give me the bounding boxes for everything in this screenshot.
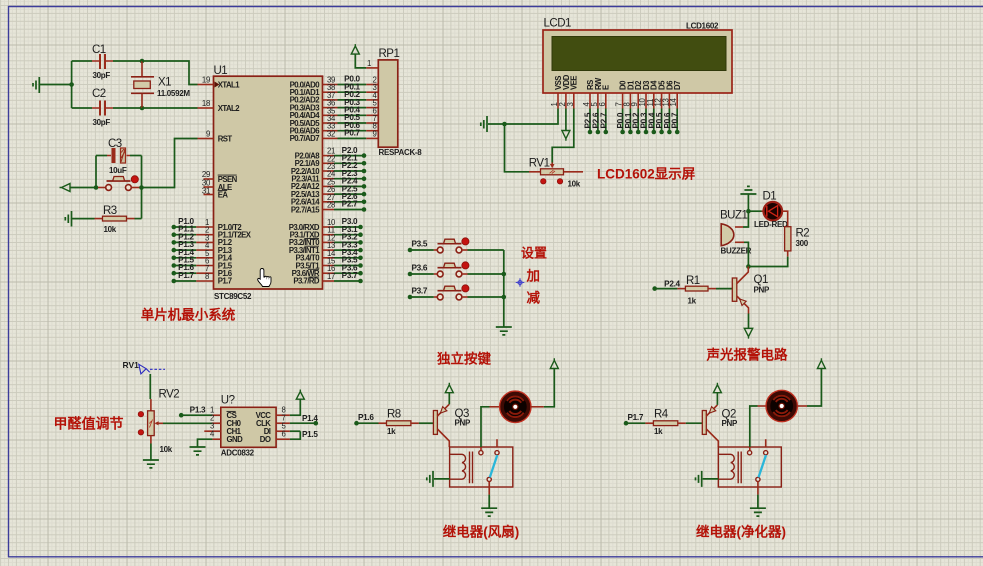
LCD pin 5 RW xyxy=(590,93,601,134)
svg-text:17: 17 xyxy=(327,272,335,281)
ground G6 (RV2) xyxy=(143,460,159,468)
svg-text:P1.6: P1.6 xyxy=(358,413,374,422)
LCD pin 1 VSS xyxy=(505,93,560,124)
svg-text:U1: U1 xyxy=(214,65,228,77)
wire junction to D1 xyxy=(748,210,763,212)
pin 27 P2.6 xyxy=(323,192,367,204)
svg-text:10uF: 10uF xyxy=(109,166,127,175)
node L (P1.6 terminal) xyxy=(354,413,374,425)
node E (reset right junction) xyxy=(139,185,144,190)
ground G4 (buttons) xyxy=(496,327,512,335)
pin 24 P2.3 xyxy=(323,169,367,181)
node I (D1/BUZ1 junction) xyxy=(746,209,751,214)
pin 4 GND xyxy=(198,430,221,447)
svg-text:XTAL1: XTAL1 xyxy=(218,80,241,89)
LCD pin 11 D4 xyxy=(646,93,657,134)
power arrow left (reset) xyxy=(60,184,97,192)
power arrow (purifier motor) xyxy=(817,358,825,368)
svg-text:STC89C52: STC89C52 xyxy=(214,292,252,301)
svg-text:设置: 设置 xyxy=(521,246,547,261)
svg-text:31: 31 xyxy=(202,187,210,196)
pin 35 P0.4 xyxy=(323,106,379,116)
svg-text:PNP: PNP xyxy=(754,286,771,295)
wire X1 to XTAL2 xyxy=(142,107,198,109)
svg-text:P0.7: P0.7 xyxy=(344,129,360,138)
push button reset xyxy=(98,176,142,191)
svg-text:1k: 1k xyxy=(654,427,663,436)
wire motor fan to power xyxy=(531,369,554,407)
resistor R4 xyxy=(626,409,702,437)
svg-text:P1.4: P1.4 xyxy=(302,414,318,423)
svg-text:1k: 1k xyxy=(688,297,697,306)
svg-text:P3.7/RD: P3.7/RD xyxy=(293,277,320,286)
svg-text:30pF: 30pF xyxy=(93,118,111,127)
pin 38 P0.1 xyxy=(323,82,379,92)
svg-text:RV1: RV1 xyxy=(123,360,140,370)
push button K3 P3.7 xyxy=(408,285,504,300)
resistor R2 xyxy=(748,227,809,267)
svg-text:P1.7: P1.7 xyxy=(218,277,232,286)
power arrow VCC (ADC) xyxy=(296,390,304,400)
svg-text:P1.7: P1.7 xyxy=(628,413,644,422)
svg-text:D7: D7 xyxy=(673,81,682,90)
pin 22 P2.1 xyxy=(323,154,367,166)
node B (C1/X1 junction) xyxy=(140,59,145,64)
svg-text:11.0592M: 11.0592M xyxy=(157,89,190,98)
pin 9 RST xyxy=(198,130,214,139)
capacitor C3 xyxy=(96,138,142,175)
svg-text:P3.6: P3.6 xyxy=(412,264,428,273)
power arrow (fan motor) xyxy=(550,358,558,368)
svg-text:LCD1602显示屏: LCD1602显示屏 xyxy=(597,167,696,182)
svg-text:RV2: RV2 xyxy=(159,389,180,401)
svg-text:30pF: 30pF xyxy=(93,71,111,80)
svg-text:18: 18 xyxy=(202,99,210,108)
LCD pin 4 RS xyxy=(582,93,593,134)
svg-text:ADC0832: ADC0832 xyxy=(221,449,255,458)
svg-text:1: 1 xyxy=(367,59,371,68)
svg-text:R2: R2 xyxy=(796,228,810,240)
ground G8 (relay fan coil) xyxy=(427,471,450,487)
wire Q1 emitter down xyxy=(748,314,750,329)
svg-text:300: 300 xyxy=(796,239,809,248)
wire button common vertical xyxy=(503,250,505,327)
transistor Q2 xyxy=(702,405,738,447)
pin 5 P1.4 xyxy=(172,248,214,260)
pin 34 P0.5 xyxy=(323,113,379,123)
svg-text:EA: EA xyxy=(218,190,229,199)
wire relay common to ground xyxy=(488,482,490,508)
svg-text:RST: RST xyxy=(218,134,233,143)
ground G2 (R3) xyxy=(65,211,94,227)
mouse cursor xyxy=(258,269,271,287)
pin 17 P3.7 xyxy=(323,271,363,283)
svg-text:PNP: PNP xyxy=(722,419,739,428)
pin 19 XTAL1 xyxy=(198,76,214,85)
svg-text:LCD1602: LCD1602 xyxy=(686,22,719,31)
chip U1 STC89C52 xyxy=(214,65,323,301)
resistor R8 xyxy=(357,409,434,437)
pin 33 P0.6 xyxy=(323,121,379,131)
LCD pin 7 D0 xyxy=(615,93,626,134)
motor M2 (purifier) xyxy=(766,390,797,421)
pin 39 P0.0 xyxy=(323,75,379,85)
svg-text:PNP: PNP xyxy=(455,419,472,428)
pin 2 P1.1 xyxy=(172,225,214,237)
wire probe to RV2 xyxy=(149,374,151,399)
wire motor purifier to power xyxy=(797,369,821,407)
pin 29 PSEN xyxy=(202,170,214,179)
resistor pack RP1 xyxy=(378,48,422,157)
svg-text:P1.3: P1.3 xyxy=(190,405,206,414)
node M (P1.7 terminal) xyxy=(624,413,644,425)
ground G3 (LCD VSS) xyxy=(481,116,505,132)
pin 23 P2.2 xyxy=(323,161,367,173)
svg-text:R3: R3 xyxy=(103,205,117,217)
svg-text:VEE: VEE xyxy=(570,76,579,90)
pin 1 P1.0 xyxy=(172,217,214,229)
LCD pin 12 D5 xyxy=(654,93,665,134)
svg-text:10k: 10k xyxy=(568,180,581,189)
wire C3 right down xyxy=(141,156,143,219)
svg-text:继电器(风扇): 继电器(风扇) xyxy=(443,524,520,540)
node C (C2/X1 junction) xyxy=(140,106,145,111)
svg-text:32: 32 xyxy=(327,129,335,138)
relay RL1 (fan) xyxy=(450,439,513,487)
pin 8 P1.7 xyxy=(172,271,214,283)
svg-text:P2.7/A15: P2.7/A15 xyxy=(291,205,320,214)
pin 37 P0.2 xyxy=(323,90,379,100)
wire VSS junction to RV1 xyxy=(505,124,530,172)
svg-text:XTAL2: XTAL2 xyxy=(218,104,241,113)
resistor R3 xyxy=(95,205,142,234)
push button K1 P3.5 xyxy=(408,238,504,253)
svg-text:BUZ1: BUZ1 xyxy=(720,210,748,222)
pin 31 EA xyxy=(202,187,214,196)
LCD pin 8 D1 xyxy=(622,93,633,134)
pin 30 ALE xyxy=(202,179,214,188)
node D (reset left junction) xyxy=(94,185,99,190)
svg-text:D1: D1 xyxy=(763,191,777,203)
svg-text:P2.7: P2.7 xyxy=(342,200,358,209)
wire relay purifier common to ground xyxy=(757,482,759,508)
svg-text:P3.5: P3.5 xyxy=(412,240,428,249)
svg-text:1k: 1k xyxy=(387,427,396,436)
node K (P2.4 terminal) xyxy=(652,280,680,291)
svg-text:P3.7: P3.7 xyxy=(412,287,428,296)
pin 5 DI xyxy=(276,422,300,432)
svg-text:减: 减 xyxy=(527,290,541,306)
probe RV1 (blue) xyxy=(123,360,166,374)
svg-text:GND: GND xyxy=(227,435,244,444)
capacitor C2 xyxy=(72,88,142,127)
svg-text:X1: X1 xyxy=(158,77,171,89)
origin marker (blue) xyxy=(516,278,525,287)
svg-text:加: 加 xyxy=(526,269,541,284)
pin 6 P1.5 xyxy=(172,256,214,268)
LCD pin 13 D6 xyxy=(661,93,672,134)
arrow down (Q1 out) xyxy=(744,328,752,338)
svg-text:P2.7: P2.7 xyxy=(599,112,608,128)
pin 2 CH0 xyxy=(210,414,221,424)
pin 11 P3.1 xyxy=(323,225,363,237)
power arrow down VDD xyxy=(562,131,570,141)
svg-text:C2: C2 xyxy=(92,88,106,100)
svg-text:6: 6 xyxy=(281,430,285,439)
ground G5 (alarm top, inverted) xyxy=(740,186,756,211)
svg-text:P1.7: P1.7 xyxy=(178,271,194,280)
svg-text:P3.7: P3.7 xyxy=(342,271,358,280)
svg-text:R1: R1 xyxy=(686,275,700,287)
svg-text:C3: C3 xyxy=(108,138,122,150)
svg-text:14: 14 xyxy=(669,97,678,106)
node H (K3 junction) xyxy=(502,295,507,300)
svg-text:RV1: RV1 xyxy=(529,158,550,170)
pin 26 P2.5 xyxy=(323,184,367,196)
node G (K2 junction) xyxy=(502,272,507,277)
transistor Q3 xyxy=(433,404,471,447)
motor M1 (fan) xyxy=(500,391,531,422)
svg-text:Q1: Q1 xyxy=(754,274,768,286)
pin 14 P3.4 xyxy=(323,248,363,260)
pin 28 P2.7 xyxy=(323,200,367,212)
svg-text:单片机最小系统: 单片机最小系统 xyxy=(141,307,236,323)
svg-text:P1.5: P1.5 xyxy=(302,430,318,439)
push button K2 P3.6 xyxy=(408,262,504,277)
power arrow (Q3) xyxy=(445,383,453,393)
transistor Q1 xyxy=(732,267,770,314)
svg-text:LCD1: LCD1 xyxy=(544,18,572,30)
LCD pin 6 E xyxy=(598,93,609,134)
wire motor purifier to relay xyxy=(750,406,766,447)
svg-text:P0.7/AD7: P0.7/AD7 xyxy=(290,134,320,143)
chip U? ADC0832 xyxy=(221,395,276,458)
svg-text:R8: R8 xyxy=(387,409,401,421)
svg-text:声光报警电路: 声光报警电路 xyxy=(706,347,788,363)
LCD LCD1 xyxy=(543,18,732,94)
pin 10 P3.0 xyxy=(323,217,363,229)
LCD pin 10 D3 xyxy=(638,93,649,134)
capacitor C1 xyxy=(72,44,142,80)
svg-text:甲醛值调节: 甲醛值调节 xyxy=(54,416,124,432)
svg-text:9: 9 xyxy=(372,129,376,138)
pin 12 P3.2 xyxy=(323,233,363,245)
pin 16 P3.6 xyxy=(323,263,363,275)
svg-text:19: 19 xyxy=(202,76,210,85)
svg-text:6: 6 xyxy=(598,102,607,106)
svg-text:P0.7: P0.7 xyxy=(671,112,680,128)
diode D1 LED-RED xyxy=(754,191,788,230)
pin 8 VCC xyxy=(276,399,300,415)
svg-text:DO: DO xyxy=(260,435,271,444)
pin 13 P3.3 xyxy=(323,240,363,252)
svg-text:RP1: RP1 xyxy=(379,48,400,60)
svg-text:9: 9 xyxy=(206,130,210,139)
pin 15 P3.5 xyxy=(323,256,363,268)
svg-text:R4: R4 xyxy=(654,409,669,421)
pin 3 P1.2 xyxy=(172,232,214,244)
crystal X1 xyxy=(131,61,190,108)
pin 25 P2.4 xyxy=(323,177,367,189)
svg-text:10k: 10k xyxy=(104,225,117,234)
wire reset to RST pin xyxy=(142,139,198,188)
LCD pin 2 VDD xyxy=(558,93,567,131)
svg-text:P2.4: P2.4 xyxy=(664,280,680,289)
power arrow VCC (RP1) xyxy=(351,44,366,68)
svg-text:LED-RED: LED-RED xyxy=(754,220,788,229)
buzzer BUZ1 xyxy=(720,210,752,267)
svg-text:C1: C1 xyxy=(92,44,106,56)
ground G1 (crystal) xyxy=(33,77,72,93)
pin 18 XTAL2 xyxy=(198,99,214,108)
svg-text:3: 3 xyxy=(566,102,575,106)
potentiometer RV1 xyxy=(529,158,583,189)
wire D1 to R2 xyxy=(782,211,788,227)
svg-text:BUZZER: BUZZER xyxy=(721,247,752,256)
pin 7 CLK xyxy=(276,414,318,426)
relay RL2 (purifier) xyxy=(718,439,781,487)
LCD pin 14 D7 xyxy=(669,93,680,134)
svg-text:继电器(净化器): 继电器(净化器) xyxy=(696,524,786,540)
svg-text:RESPACK-8: RESPACK-8 xyxy=(379,148,423,157)
node F (VSS junction) xyxy=(502,122,507,127)
pin 1 RP1 xyxy=(366,59,378,68)
LCD pin 9 D2 xyxy=(630,93,641,134)
node J (R2/BUZ1/Q1 junction) xyxy=(746,264,751,269)
pin 3 CH1 xyxy=(204,422,221,432)
ground G10 (relay purifier coil) xyxy=(696,471,719,487)
wire X1 to XTAL1 xyxy=(142,61,198,85)
pin 1 CS xyxy=(179,405,221,417)
svg-text:28: 28 xyxy=(327,201,335,210)
wire motor fan to relay xyxy=(481,407,500,447)
pin 4 P1.3 xyxy=(172,240,214,252)
pin 7 P1.6 xyxy=(172,263,214,275)
wire C1-C2 left vertical xyxy=(71,61,73,108)
potentiometer RV2 xyxy=(138,389,179,455)
LCD pin 3 VEE xyxy=(552,93,575,163)
wire Q2 emitter to power xyxy=(716,393,718,405)
pin 6 DO xyxy=(276,430,318,440)
svg-text:10k: 10k xyxy=(160,445,173,454)
wire C3 left down xyxy=(95,156,97,188)
ground G11 (relay purifier switch) xyxy=(750,508,766,516)
power arrow (Q2) xyxy=(713,383,721,393)
wire Q3 emitter to power xyxy=(448,393,450,405)
node A (C1/C2 left junction) xyxy=(69,82,74,87)
resistor R1 xyxy=(655,275,733,306)
ground G7 (ADC) xyxy=(190,447,206,455)
wire RV2 wiper to CH0 xyxy=(163,422,212,424)
svg-text:E: E xyxy=(602,85,611,90)
svg-text:独立按键: 独立按键 xyxy=(437,351,491,367)
pin 21 P2.0 xyxy=(323,146,367,158)
wire RV2 to ground xyxy=(150,444,152,460)
pin 32 P0.7 xyxy=(323,129,379,139)
ground G9 (relay fan switch) xyxy=(481,508,497,516)
pin 36 P0.3 xyxy=(323,98,379,108)
svg-text:8: 8 xyxy=(205,272,209,281)
svg-text:U?: U? xyxy=(221,395,235,407)
